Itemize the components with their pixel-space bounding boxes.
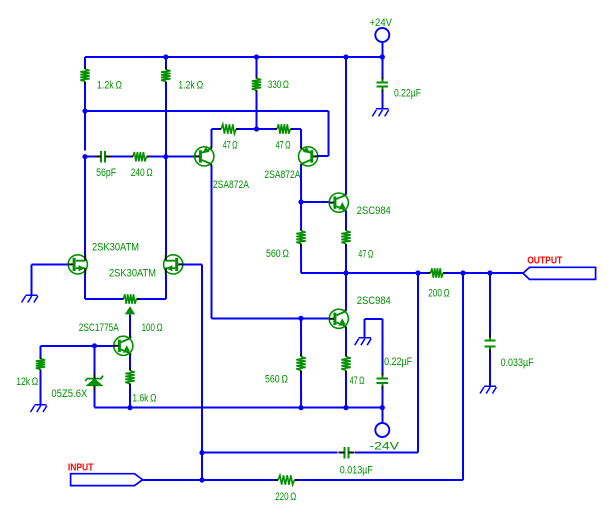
resistor R9 1.6k&#937; (emitter) — [129, 356, 131, 371]
output tag — [523, 267, 596, 279]
svg-text:2SC984: 2SC984 — [357, 295, 391, 307]
power -24V terminal — [381, 408, 383, 424]
svg-text:47 Ω: 47 Ω — [223, 140, 238, 152]
svg-text:47 Ω: 47 Ω — [358, 249, 373, 261]
svg-text:1.2k Ω: 1.2k Ω — [97, 80, 122, 92]
svg-text:2SC984: 2SC984 — [357, 205, 391, 217]
wire right JFET drain — [165, 157, 167, 255]
transistor Q7 2SC984 (lower) — [329, 309, 348, 329]
wire right PNP collector down — [300, 166, 302, 202]
svg-text:220 Ω: 220 Ω — [275, 491, 296, 503]
wire 47-ohm emitter bus — [212, 128, 222, 130]
wire left PNP collector down — [211, 166, 213, 319]
resistor R7 100&#937; trimmer — [123, 294, 136, 303]
wire JFET sources rail — [84, 274, 86, 299]
transistor Q5 2SC1775A — [114, 336, 133, 356]
wire right JFET gate to input node — [183, 263, 202, 265]
wire lower 2SC984 base link — [212, 317, 330, 319]
transistor Q3 2SA872A (left) — [211, 129, 213, 147]
capacitor C5 0.013uF — [343, 447, 345, 459]
input tag — [71, 474, 143, 486]
svg-text:2SK30ATM: 2SK30ATM — [109, 268, 156, 280]
resistor R14 200&#8201;&#937; — [431, 268, 444, 277]
svg-text:1.6k Ω: 1.6k Ω — [132, 393, 156, 405]
zener diode D1 05Z5.6X — [94, 346, 96, 373]
svg-text:0.22µF: 0.22µF — [394, 88, 421, 100]
svg-text:560 Ω: 560 Ω — [266, 248, 289, 260]
svg-text:330 Ω: 330 Ω — [268, 79, 289, 91]
component pin stubs — [84, 67, 86, 69]
transistor Q2 2SK30ATM (right JFET, mirrored) — [164, 255, 183, 274]
transistor Q6 2SC984 (upper) — [329, 193, 348, 213]
svg-text:2SA872A: 2SA872A — [213, 179, 250, 191]
svg-text:-24V: -24V — [370, 441, 400, 453]
wire input rail — [143, 479, 275, 481]
svg-text:INPUT: INPUT — [68, 462, 94, 473]
ground (12k bottom) — [31, 405, 47, 413]
resistor R12 560&#937; (lower) — [300, 318, 302, 356]
wire left JFET gate to ground — [32, 263, 68, 265]
svg-text:12k Ω: 12k Ω — [16, 376, 38, 388]
svg-text:47 Ω: 47 Ω — [276, 140, 291, 152]
ground (output bias) — [364, 319, 366, 338]
svg-text:200 Ω: 200 Ω — [428, 288, 450, 300]
ground (top right) — [372, 109, 388, 117]
wire second rail — [85, 110, 329, 112]
resistor R8 12k&#8201;&#937; — [40, 346, 42, 359]
svg-text:2SK30ATM: 2SK30ATM — [92, 241, 139, 253]
svg-text:0.22µF: 0.22µF — [384, 356, 412, 368]
wire -24V rail — [95, 407, 383, 409]
svg-text:05Z5.6X: 05Z5.6X — [51, 388, 88, 400]
ground (output cap) — [480, 386, 496, 394]
ground (left JFET gate) — [22, 295, 38, 303]
resistor R1 1.2k&#937; (left drain load) — [84, 57, 86, 69]
svg-text:100 Ω: 100 Ω — [142, 322, 163, 334]
capacitor C4 0.033uF — [489, 273, 491, 337]
wire right PNP base to rail — [328, 111, 330, 156]
svg-text:1.2k Ω: 1.2k Ω — [178, 79, 203, 91]
resistor R2 1.2k&#937; (right drain load) — [165, 57, 167, 70]
wire feedback cap branch — [417, 273, 419, 453]
resistor R11 47&#937; (upper emitter) — [345, 211, 347, 231]
transistor Q1 2SK30ATM (left JFET) — [68, 255, 87, 274]
capacitor C1 0.22uF (+24V decoupling) — [381, 57, 383, 78]
wire base node — [41, 345, 114, 347]
resistor R3 330&#8201;&#937; — [256, 57, 258, 78]
resistor R5 47&#8201;&#937; — [221, 124, 236, 133]
svg-text:0.033µF: 0.033µF — [501, 357, 534, 369]
wire output rail — [301, 272, 431, 274]
svg-text:2SA872A: 2SA872A — [264, 169, 301, 181]
wire lower collector to output rail — [345, 273, 347, 310]
wire left column — [84, 111, 86, 151]
resistor R13 47&#937; (lower emitter) — [345, 328, 347, 357]
trimmer wiper arrow — [125, 306, 135, 314]
capacitor C2 56pF — [85, 156, 95, 158]
svg-text:2SC1775A: 2SC1775A — [79, 322, 119, 334]
resistor R15 220&#8201;&#937; — [278, 475, 294, 484]
svg-text:OUTPUT: OUTPUT — [527, 255, 562, 266]
resistor R10 560&#937; (upper) — [300, 202, 302, 231]
wire base node top 2SC984 — [301, 201, 329, 203]
svg-text:560 Ω: 560 Ω — [265, 374, 288, 386]
svg-text:56pF: 56pF — [96, 167, 116, 179]
svg-text:240 Ω: 240 Ω — [131, 167, 153, 179]
capacitor C3 0.22uF (lower) — [365, 318, 383, 320]
svg-text:0.013µF: 0.013µF — [340, 465, 373, 477]
svg-text:+24V: +24V — [370, 17, 393, 29]
svg-text:47 Ω: 47 Ω — [350, 375, 365, 387]
resistor R6 47&#8201;&#937; — [257, 128, 278, 130]
node: top rail junctions — [163, 54, 168, 59]
wire collector to +24 rail — [345, 57, 347, 194]
wire feedback resistor branch — [462, 273, 464, 480]
transistor Q4 2SA872A (right, mirrored) — [300, 129, 302, 147]
power +24V terminal — [375, 28, 389, 42]
resistor R4 240&#8201;&#937; — [111, 156, 133, 158]
wire +24V top rail — [85, 56, 382, 58]
